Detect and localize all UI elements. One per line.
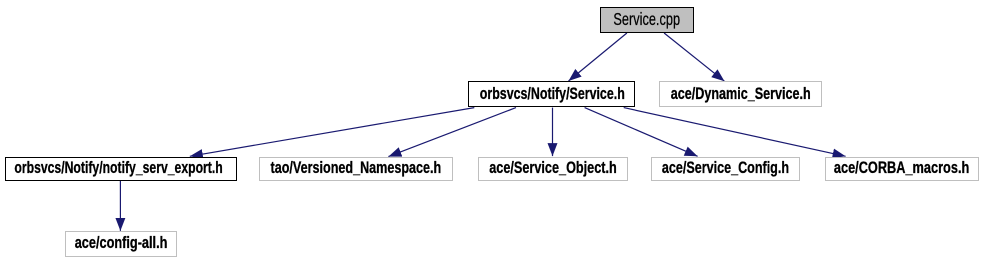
node ace/config-all.h — [65, 231, 178, 257]
wire Service.cpp -> ace/Dynamic_Service.h — [664, 33, 724, 81]
wire Service.h -> ace/Service_Config.h — [585, 108, 698, 157]
node Service.cpp — [600, 7, 694, 33]
node orbsvcs/Notify/Service.h — [468, 81, 635, 107]
wire Service.cpp -> orbsvcs/Notify/Service.h — [569, 33, 627, 81]
node ace/CORBA_macros.h — [825, 157, 980, 182]
wire notify_serv_export.h -> ace/config-all.h — [119, 181, 121, 231]
wire Service.h -> notify_serv_export.h — [190, 108, 475, 157]
node ace/Dynamic_Service.h — [659, 81, 822, 107]
node ace/Service_Object.h — [478, 157, 628, 182]
wire Service.h -> ace/Service_Object.h — [552, 108, 554, 157]
node ace/Service_Config.h — [651, 157, 800, 182]
node tao/Versioned_Namespace.h — [259, 157, 453, 182]
wire Service.h -> ace/CORBA_macros.h — [624, 108, 846, 157]
wire Service.h -> tao/Versioned_Namespace.h — [388, 108, 516, 157]
node orbsvcs/Notify/notify_serv_export.h — [5, 157, 237, 182]
